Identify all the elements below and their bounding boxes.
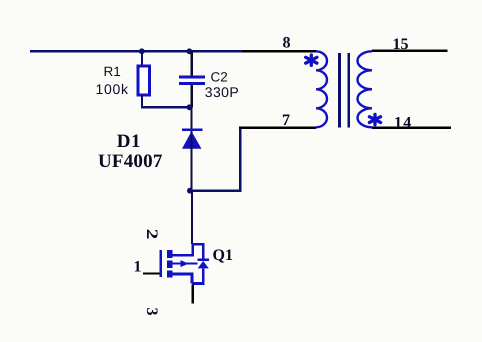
- wire: top horizontal net: [30, 50, 242, 52]
- polarity dot asterisk (pin 14 side): [369, 114, 380, 124]
- wire: diode anode down to node: [190, 131, 192, 191]
- source connection path: [173, 274, 193, 283]
- transistor Q1 (N-MOSFET): [143, 244, 209, 283]
- svg-text:14: 14: [394, 114, 412, 131]
- svg-text:330P: 330P: [205, 84, 239, 100]
- node junction at diode anode: [187, 188, 193, 194]
- gate lead (pin 1): [143, 272, 161, 274]
- wire: node down to diode cathode: [190, 107, 192, 130]
- transformer T primary winding (pins 8-7): [316, 51, 327, 127]
- wire: drain wire from node down to Q1: [191, 191, 193, 244]
- wire: node right and up toward pin 7: [192, 128, 241, 191]
- channel bar source: [167, 271, 172, 278]
- transformer T secondary winding (pins 15-14): [358, 51, 373, 127]
- resistor R1: [138, 66, 150, 95]
- wire: C2 bottom lead: [191, 85, 193, 108]
- pin 14 lead of transformer: [372, 127, 451, 129]
- node junction below C2: [187, 104, 193, 110]
- svg-text:C2: C2: [211, 69, 228, 84]
- svg-text:1: 1: [134, 258, 142, 275]
- node junction at R1 top: [139, 48, 145, 54]
- wire: source wire below Q1: [191, 285, 193, 304]
- capacitor C2: [179, 77, 205, 84]
- svg-text:8: 8: [283, 35, 291, 52]
- svg-text:7: 7: [282, 112, 290, 129]
- node junction at C2 top: [187, 48, 193, 54]
- svg-text:D1: D1: [117, 131, 141, 152]
- svg-text:3: 3: [143, 308, 160, 316]
- body diode to source path: [192, 268, 203, 283]
- body diode triangle: [198, 261, 209, 268]
- transformer core lines: [340, 53, 349, 128]
- drain connection path: [173, 244, 204, 258]
- wire: R1 top lead: [141, 51, 143, 66]
- pin 15 lead of transformer: [372, 50, 448, 52]
- gate bar: [160, 250, 163, 277]
- channel bar drain: [167, 250, 172, 258]
- body arrow line: [173, 263, 198, 265]
- wire: R1 bottom lead down and right to node: [142, 95, 192, 107]
- svg-text:100k: 100k: [96, 81, 129, 97]
- svg-text:15: 15: [393, 36, 409, 53]
- svg-text:Q1: Q1: [213, 247, 233, 264]
- diode D1: [182, 130, 202, 149]
- polarity dot asterisk (pin 8 side): [306, 55, 317, 65]
- svg-text:UF4007: UF4007: [98, 151, 163, 172]
- channel bar body: [167, 261, 172, 268]
- body diode cathode bar: [198, 258, 209, 260]
- wire: C2 top lead: [191, 51, 193, 76]
- body arrow head: [181, 260, 189, 267]
- svg-text:2: 2: [143, 229, 160, 240]
- pin 7 lead of transformer: [239, 127, 316, 129]
- pin 8 lead of transformer: [242, 50, 316, 52]
- svg-text:R1: R1: [104, 64, 121, 79]
